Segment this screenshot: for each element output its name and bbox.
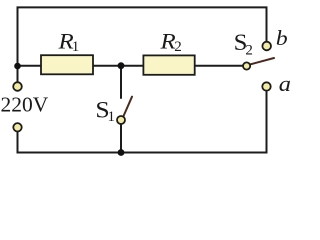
svg-text:2: 2 [174,39,182,55]
svg-text:220V: 220V [1,93,49,117]
svg-text:b: b [276,26,288,50]
svg-text:1: 1 [108,109,116,125]
svg-text:a: a [279,71,291,96]
svg-text:1: 1 [72,39,80,55]
svg-text:2: 2 [245,42,253,58]
